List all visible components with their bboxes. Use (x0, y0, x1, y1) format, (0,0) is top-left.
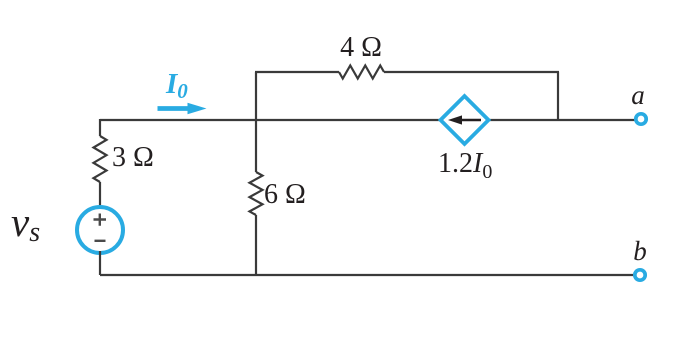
plus sign inside voltage source (94, 214, 107, 226)
minus sign inside voltage source (95, 240, 106, 242)
svg-text:6 Ω: 6 Ω (264, 179, 306, 210)
wire: main horizontal node from left corner to dependent source (100, 119, 441, 121)
wire: top loop left vertical (junction up) (255, 72, 257, 120)
wire: middle branch upper segment (junction at main wire down to 6-ohm) (255, 120, 257, 172)
resistor R 4 ohm (horizontal zigzag) (339, 66, 384, 79)
svg-text:I0: I0 (165, 68, 188, 103)
svg-text:a: a (631, 80, 645, 110)
voltage source vs (independent, circle) (77, 207, 123, 253)
terminal a (open node) (636, 114, 646, 124)
arrow inside dependent source (pointing left) (459, 119, 481, 121)
svg-text:4 Ω: 4 Ω (340, 32, 382, 63)
wire: below voltage source down to bottom rail (99, 251, 101, 275)
wire: from dependent source right vertex to terminal a (487, 119, 635, 121)
resistor R 6 ohm (vertical zigzag) (250, 172, 263, 215)
wire: middle branch lower segment (6-ohm to bottom rail) (255, 215, 257, 275)
wire: left branch top segment (corner at x=100 down to 3-ohm resistor) (99, 119, 101, 136)
resistor R 3 ohm (vertical zigzag) (94, 136, 107, 182)
dependent current source 1.2 I0 (diamond) (441, 96, 489, 144)
svg-text:3 Ω: 3 Ω (112, 142, 154, 173)
svg-text:vs: vs (11, 199, 40, 248)
svg-text:1.2I0: 1.2I0 (438, 148, 492, 183)
wire: bottom rail from voltage source to terminal b (100, 274, 634, 276)
wire: top loop left horizontal to 4-ohm resistor (255, 71, 339, 73)
current arrow I0 (cyan) (158, 106, 190, 111)
wire: top loop right horizontal from 4-ohm resistor (384, 71, 559, 73)
terminal b (open node) (635, 270, 645, 280)
wire: top loop right vertical down to main wire (557, 72, 559, 120)
svg-text:b: b (633, 236, 647, 266)
wire: between 3-ohm resistor and voltage source (99, 182, 101, 209)
